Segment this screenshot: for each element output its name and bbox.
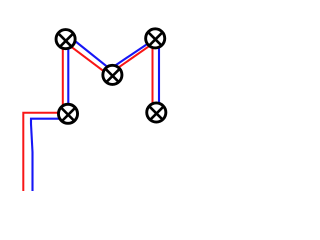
wire red E2 to E3 diagonal xyxy=(118,45,150,67)
wire red E4 to E1 vertical xyxy=(62,48,64,106)
lamp E3 top-right xyxy=(146,29,165,48)
lamp E1 top-left xyxy=(56,30,75,49)
wire red E1 to E2 diagonal xyxy=(72,47,104,71)
wire N feed blue: vertical from bottom edge + horizontal to lamp E4 xyxy=(31,119,60,191)
wire blue E4 to E1 vertical xyxy=(67,48,69,105)
wire blue E3 to E5 vertical xyxy=(158,47,160,104)
lamp E2 middle xyxy=(103,65,122,84)
lamp E4 left xyxy=(58,104,77,123)
wire L feed red: vertical from bottom edge + horizontal to lamp E4 xyxy=(23,113,59,191)
lamp E5 right xyxy=(147,103,166,122)
wire blue E2 to E3 diagonal xyxy=(115,43,149,66)
wire red E3 to E5 vertical xyxy=(152,48,154,104)
wire blue E1 to E2 diagonal xyxy=(74,41,107,67)
